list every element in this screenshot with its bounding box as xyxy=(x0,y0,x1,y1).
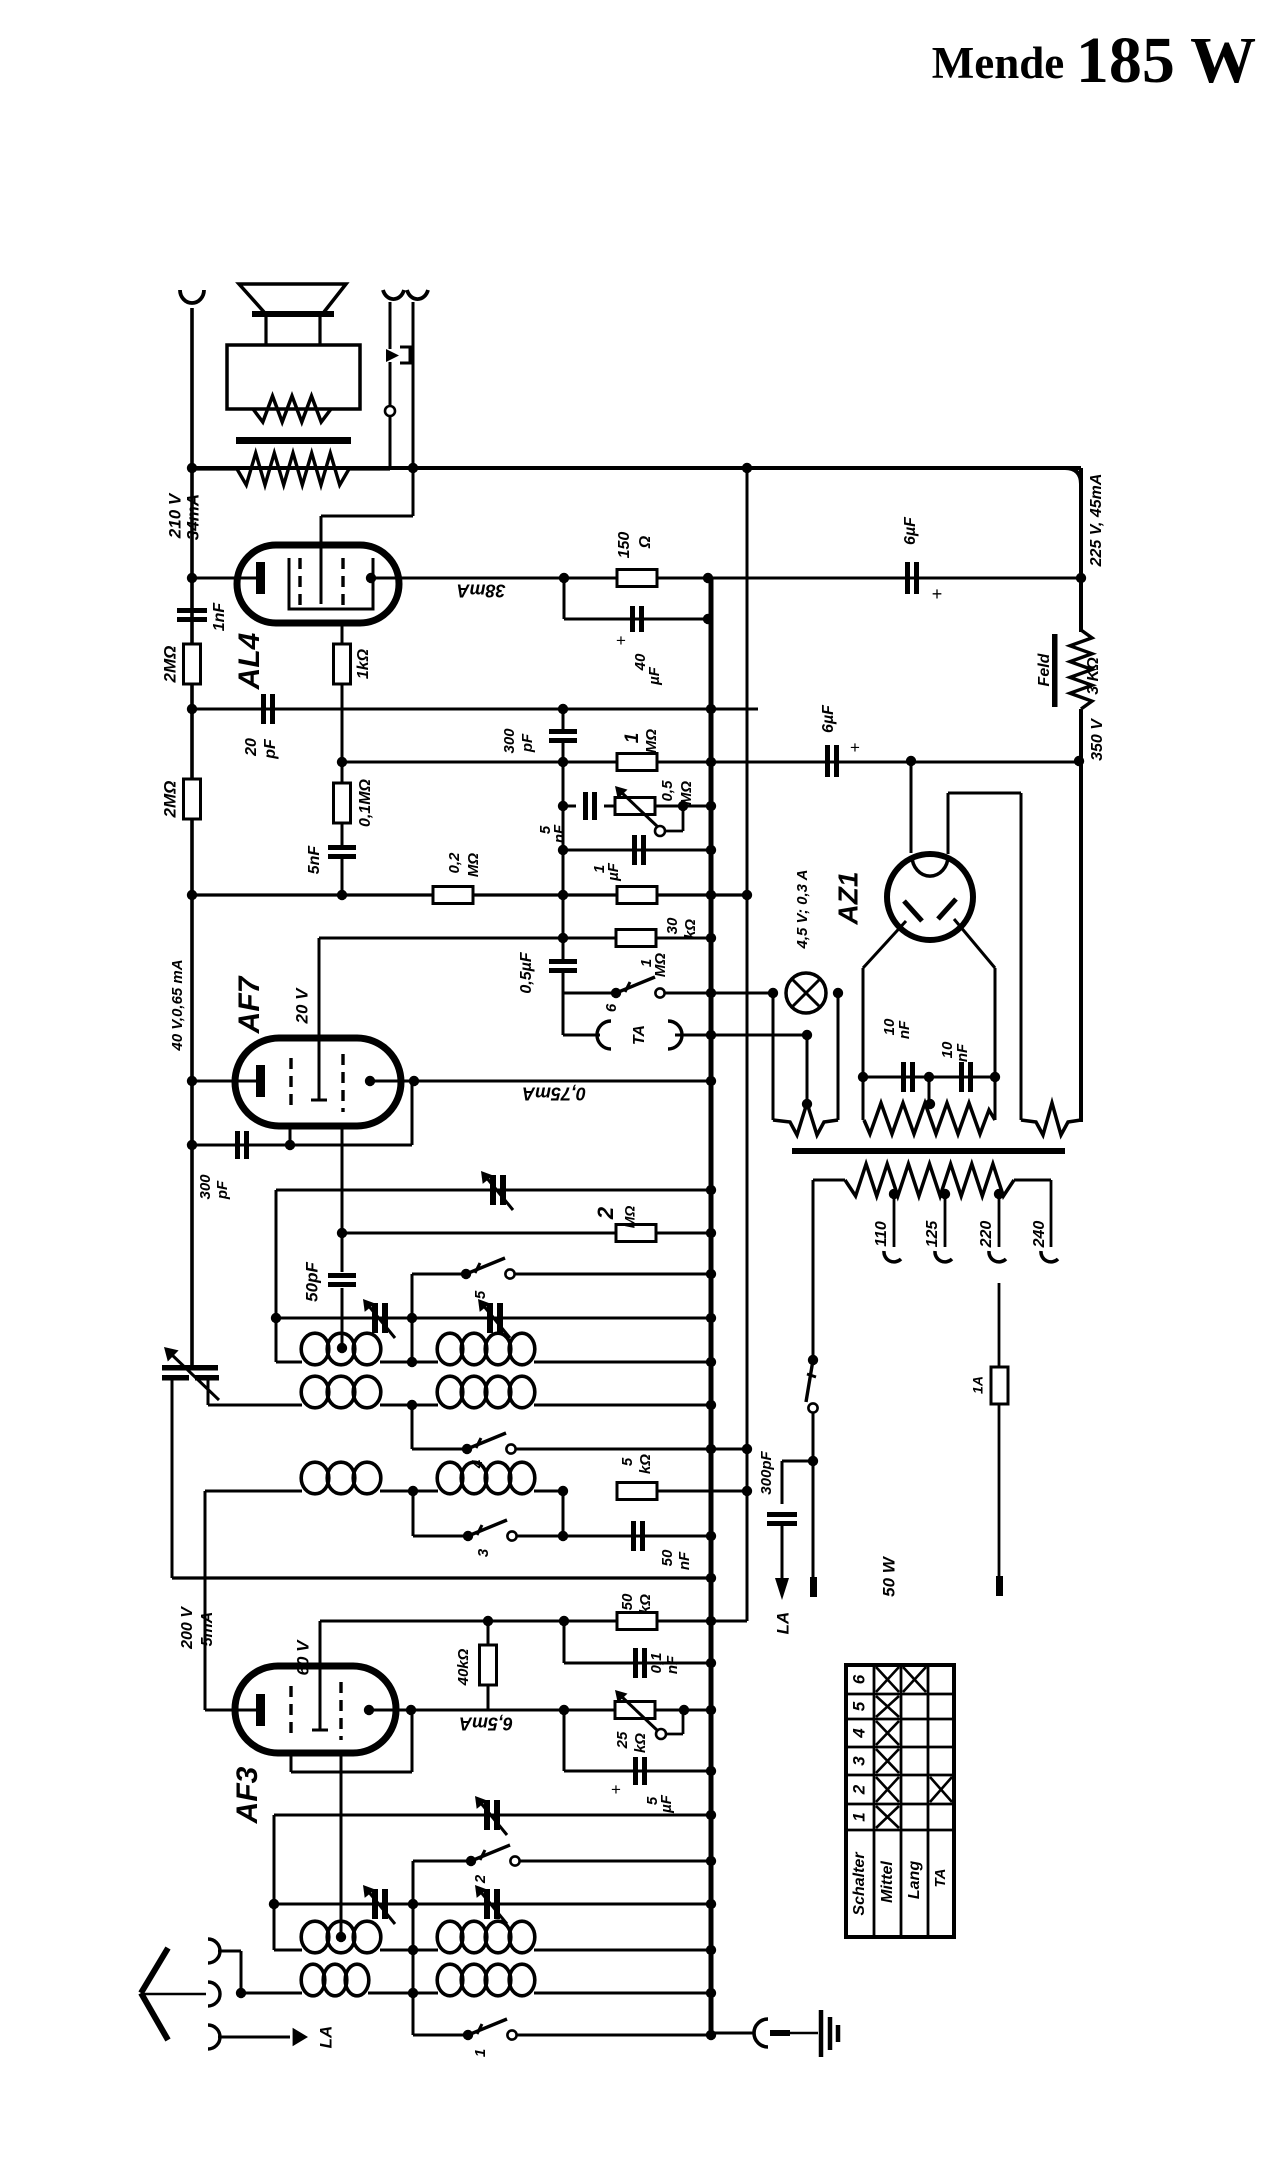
svg-text:µF: µF xyxy=(658,1794,675,1814)
svg-text:50: 50 xyxy=(619,1593,636,1610)
svg-text:5mA: 5mA xyxy=(199,1612,216,1647)
svg-text:2MΩ: 2MΩ xyxy=(160,781,179,819)
svg-text:50 W: 50 W xyxy=(879,1555,898,1597)
svg-text:2: 2 xyxy=(593,1206,618,1220)
svg-text:Ω: Ω xyxy=(637,535,654,549)
svg-text:Feld: Feld xyxy=(1036,652,1053,686)
svg-text:38mA: 38mA xyxy=(456,580,505,600)
svg-text:6: 6 xyxy=(849,1674,868,1684)
svg-text:TA: TA xyxy=(932,1869,949,1888)
svg-text:pF: pF xyxy=(262,738,279,760)
svg-text:µF: µF xyxy=(646,666,663,686)
svg-text:MΩ: MΩ xyxy=(678,781,695,805)
svg-text:60 V: 60 V xyxy=(293,1639,312,1676)
svg-text:MΩ: MΩ xyxy=(622,1206,638,1229)
svg-text:2: 2 xyxy=(472,1874,489,1884)
svg-text:4,5 V; 0,3 A: 4,5 V; 0,3 A xyxy=(794,870,811,950)
svg-text:nF: nF xyxy=(551,824,568,843)
svg-text:6: 6 xyxy=(603,1003,620,1012)
svg-text:nF: nF xyxy=(954,1043,971,1062)
svg-text:+: + xyxy=(850,738,860,757)
svg-text:2MΩ: 2MΩ xyxy=(160,646,179,684)
svg-text:225 V, 45mA: 225 V, 45mA xyxy=(1088,474,1105,568)
svg-text:4: 4 xyxy=(849,1728,868,1739)
svg-text:Schalter: Schalter xyxy=(851,1852,868,1916)
svg-text:20: 20 xyxy=(243,738,260,757)
svg-text:185 W: 185 W xyxy=(1076,24,1256,97)
svg-text:0,1: 0,1 xyxy=(648,1653,665,1674)
svg-text:Mittel: Mittel xyxy=(879,1861,896,1903)
svg-text:+: + xyxy=(932,584,943,604)
svg-text:1kΩ: 1kΩ xyxy=(355,648,372,679)
svg-text:220: 220 xyxy=(978,1221,995,1249)
svg-text:LA: LA xyxy=(316,2026,335,2049)
svg-text:nF: nF xyxy=(676,1551,693,1570)
svg-text:AF7: AF7 xyxy=(233,975,266,1034)
svg-text:6,5mA: 6,5mA xyxy=(459,1713,513,1733)
svg-text:200 V: 200 V xyxy=(179,1606,196,1650)
svg-text:kΩ: kΩ xyxy=(637,1454,654,1474)
svg-text:150: 150 xyxy=(616,532,633,559)
svg-text:MΩ: MΩ xyxy=(465,853,482,877)
svg-text:40kΩ: 40kΩ xyxy=(455,1648,472,1686)
svg-text:5nF: 5nF xyxy=(306,845,323,875)
svg-text:125: 125 xyxy=(924,1220,941,1248)
svg-text:AZ1: AZ1 xyxy=(832,872,863,926)
svg-text:3 KΩ: 3 KΩ xyxy=(1085,657,1102,695)
svg-text:5: 5 xyxy=(472,1290,489,1299)
svg-text:1: 1 xyxy=(472,2049,489,2057)
svg-text:MΩ: MΩ xyxy=(652,953,669,977)
svg-text:0,75mA: 0,75mA xyxy=(522,1083,586,1103)
svg-text:MΩ: MΩ xyxy=(643,729,660,753)
svg-text:300: 300 xyxy=(197,1174,214,1200)
svg-text:+: + xyxy=(611,1780,621,1799)
svg-text:nF: nF xyxy=(896,1020,913,1039)
svg-text:1: 1 xyxy=(849,1812,868,1821)
svg-text:110: 110 xyxy=(873,1221,890,1247)
svg-text:3: 3 xyxy=(849,1756,868,1766)
svg-text:nF: nF xyxy=(664,1655,681,1674)
svg-text:240: 240 xyxy=(1031,1221,1048,1249)
svg-text:1nF: 1nF xyxy=(211,602,228,632)
svg-text:0,1MΩ: 0,1MΩ xyxy=(357,778,374,827)
svg-text:30: 30 xyxy=(664,917,681,934)
svg-text:kΩ: kΩ xyxy=(637,1594,654,1614)
svg-text:µF: µF xyxy=(605,862,622,882)
svg-text:300: 300 xyxy=(501,728,518,754)
svg-text:20 V: 20 V xyxy=(292,987,311,1025)
svg-text:210 V: 210 V xyxy=(165,492,184,539)
svg-text:300pF: 300pF xyxy=(758,1450,775,1494)
svg-text:kΩ: kΩ xyxy=(682,919,699,939)
svg-text:25: 25 xyxy=(614,1731,631,1749)
svg-text:1A: 1A xyxy=(970,1376,986,1394)
svg-text:0,5µF: 0,5µF xyxy=(518,951,535,993)
svg-text:LA: LA xyxy=(773,1612,792,1635)
svg-text:2: 2 xyxy=(849,1784,868,1795)
svg-text:1: 1 xyxy=(622,733,643,744)
svg-text:50pF: 50pF xyxy=(302,1262,321,1302)
svg-text:TA: TA xyxy=(631,1025,648,1045)
svg-text:AL4: AL4 xyxy=(233,632,266,690)
svg-text:6µF: 6µF xyxy=(902,516,919,545)
svg-text:+: + xyxy=(616,631,626,650)
svg-text:0,5: 0,5 xyxy=(659,780,676,802)
svg-text:Mende: Mende xyxy=(932,38,1064,88)
svg-text:pF: pF xyxy=(519,733,536,753)
svg-text:34mA: 34mA xyxy=(183,494,202,540)
svg-text:50: 50 xyxy=(659,1549,676,1566)
svg-text:5: 5 xyxy=(619,1457,636,1466)
svg-text:0,2: 0,2 xyxy=(446,852,463,874)
svg-text:Lang: Lang xyxy=(906,1861,923,1899)
svg-text:5: 5 xyxy=(849,1701,868,1711)
svg-text:40 V,0,65 mA: 40 V,0,65 mA xyxy=(169,959,186,1051)
svg-text:350 V: 350 V xyxy=(1089,718,1106,761)
svg-text:3: 3 xyxy=(475,1548,492,1557)
svg-text:AF3: AF3 xyxy=(231,1766,264,1824)
svg-text:kΩ: kΩ xyxy=(632,1733,649,1753)
svg-text:6µF: 6µF xyxy=(820,704,837,733)
svg-text:pF: pF xyxy=(214,1180,231,1200)
